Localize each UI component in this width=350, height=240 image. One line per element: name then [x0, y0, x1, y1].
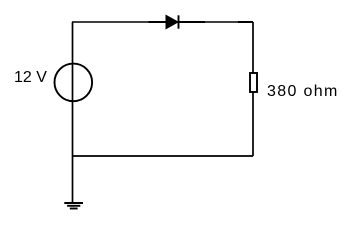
wire: top horizontal (source node to resistor node): [72, 21, 253, 23]
wire: diode leads (slightly thicker): [149, 21, 206, 23]
diode D1 (anode left, cathode bar right): [166, 15, 179, 28]
wire: right vertical (through resistor): [252, 22, 254, 156]
svg-text:12 V: 12 V: [14, 69, 47, 86]
voltage source V1 (circle): [55, 64, 93, 102]
resistor R1 (box): [250, 73, 257, 92]
ground (earth symbol): [64, 203, 83, 209]
wire: lead into top-right corner: [238, 21, 253, 23]
wire: left vertical (through voltage source down to ground): [72, 22, 74, 203]
wire: bottom horizontal: [72, 155, 253, 157]
svg-text:380 ohm: 380 ohm: [267, 83, 339, 100]
